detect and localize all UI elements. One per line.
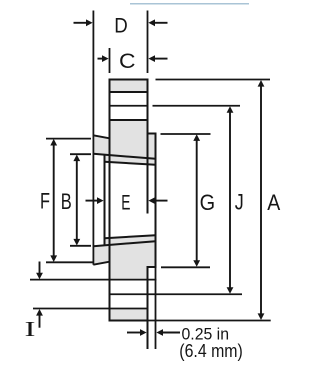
svg-text:G: G (200, 190, 216, 215)
svg-text:I: I (25, 317, 36, 341)
svg-text:F: F (40, 189, 50, 214)
svg-text:(6.4 mm): (6.4 mm) (179, 341, 243, 361)
svg-text:A: A (267, 190, 280, 215)
svg-text:E: E (121, 192, 130, 215)
svg-text:J: J (235, 189, 244, 214)
svg-text:B: B (61, 189, 72, 214)
svg-text:C: C (119, 50, 136, 73)
svg-text:D: D (114, 15, 128, 38)
